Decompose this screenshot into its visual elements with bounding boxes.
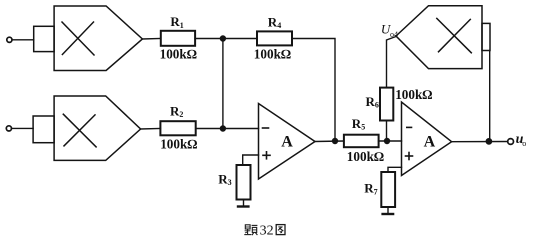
wire [142, 38, 160, 41]
wire [243, 200, 245, 207]
svg-text:R5: R5 [352, 116, 365, 132]
svg-text:R6: R6 [366, 94, 379, 110]
resistor R1 [161, 31, 195, 46]
wire [379, 140, 402, 142]
svg-text:R3: R3 [218, 171, 231, 187]
multiplier M3 X symbol [437, 18, 472, 52]
op-amp U1 minus sign [263, 127, 269, 129]
resistor R5 [344, 135, 379, 148]
svg-text:R7: R7 [364, 181, 377, 197]
op-amp U1 [259, 104, 316, 180]
wire [489, 51, 491, 142]
input terminal 2 [6, 126, 11, 131]
multiplier M2 X symbol [63, 114, 96, 147]
wire [12, 39, 34, 41]
wire [195, 38, 257, 40]
multiplier M2 body [54, 96, 141, 160]
svg-text:100kΩ: 100kΩ [347, 149, 384, 164]
op-amp U1 plus sign [263, 152, 270, 159]
wire [243, 155, 259, 165]
multiplier M3 output port [482, 23, 490, 50]
ground [238, 205, 248, 207]
op-amp U2 minus sign [407, 126, 412, 128]
multiplier M3 body [396, 6, 482, 69]
wire [12, 127, 34, 129]
node junction B [220, 125, 226, 131]
svg-text:o: o [522, 139, 526, 148]
multiplier M1 X symbol [62, 22, 94, 55]
svg-text:A: A [424, 133, 436, 150]
op-amp U2 [402, 102, 452, 176]
wire [292, 39, 335, 142]
svg-text:R2: R2 [170, 104, 183, 120]
node junction D [384, 138, 390, 144]
node junction A [220, 35, 226, 41]
ground [383, 213, 394, 215]
svg-text:32: 32 [260, 224, 274, 239]
wire [387, 37, 397, 88]
caption: character tu (figure) [276, 225, 285, 235]
multiplier M1 input port [34, 26, 54, 51]
resistor R2 [160, 121, 195, 135]
wire [386, 121, 388, 142]
caption: character ti (problem) [244, 225, 257, 235]
wire [388, 167, 402, 172]
svg-text:R1: R1 [170, 14, 183, 30]
resistor R3 [237, 165, 251, 200]
node junction C [332, 138, 338, 144]
svg-text:100kΩ: 100kΩ [254, 47, 291, 62]
wire [222, 39, 224, 129]
svg-text:100kΩ: 100kΩ [160, 46, 197, 61]
wire [196, 128, 259, 130]
op-amp U2 plus sign [406, 153, 413, 160]
wire [315, 140, 344, 143]
svg-text:100kΩ: 100kΩ [160, 136, 197, 151]
output terminal [508, 139, 514, 145]
wire [141, 128, 161, 131]
multiplier M2 input port [33, 116, 54, 143]
resistor R6 [380, 88, 393, 121]
input terminal 1 [7, 37, 12, 42]
resistor R4 [257, 31, 292, 45]
resistor R7 [381, 172, 395, 207]
node junction E [486, 138, 493, 145]
multiplier M1 body [54, 6, 142, 71]
wire [387, 207, 389, 214]
wire [452, 141, 508, 143]
svg-text:A: A [281, 133, 293, 150]
svg-text:100kΩ: 100kΩ [395, 87, 432, 102]
svg-text:R4: R4 [268, 15, 281, 31]
